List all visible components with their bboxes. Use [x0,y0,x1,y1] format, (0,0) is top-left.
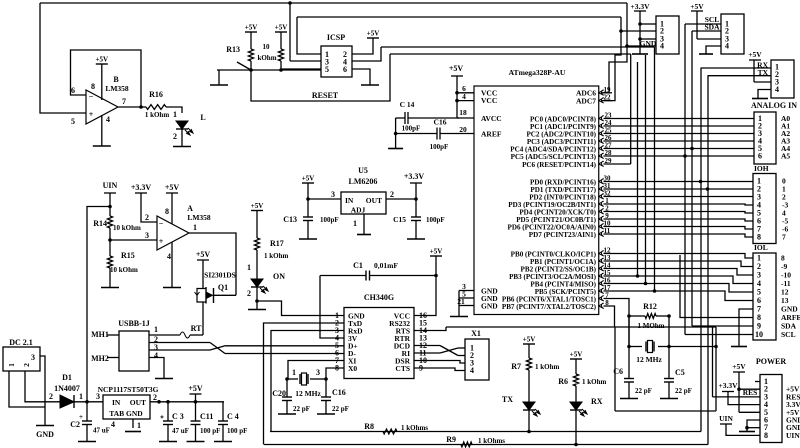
svg-text:C2: C2 [70,420,80,429]
svg-text:22 pF: 22 pF [293,405,310,413]
svg-text:21: 21 [457,297,465,306]
svg-text:+5V: +5V [690,2,704,11]
svg-text:RX: RX [591,397,603,406]
svg-text:1N4007: 1N4007 [54,384,80,393]
svg-text:IN: IN [112,398,121,407]
svg-text:C16: C16 [434,118,447,127]
svg-text:GND: GND [36,430,54,439]
svg-text:ADC7: ADC7 [576,96,596,105]
svg-text:TAB GND: TAB GND [109,409,143,418]
svg-text:B: B [113,75,119,84]
svg-text:+5V: +5V [302,175,315,183]
svg-text:ON: ON [273,272,285,281]
svg-text:R9: R9 [446,435,456,444]
svg-text:MH2: MH2 [91,354,109,363]
svg-text:1: 1 [79,392,83,401]
svg-text:C 14: C 14 [400,100,415,109]
svg-text:3: 3 [331,190,335,199]
svg-text:1: 1 [137,421,141,430]
svg-text:1: 1 [7,363,16,367]
svg-text:IOH: IOH [754,164,769,173]
svg-text:R12: R12 [643,302,657,311]
svg-text:+5V: +5V [188,384,203,393]
svg-text:4: 4 [167,252,171,261]
svg-text:1 kOhm: 1 kOhm [145,111,169,119]
svg-text:AVCC: AVCC [481,114,502,123]
svg-text:Q1: Q1 [218,283,228,292]
svg-text:C5: C5 [675,368,685,377]
svg-text:18: 18 [459,108,467,117]
svg-text:MH1: MH1 [91,330,109,339]
svg-text:1 MOhm: 1 MOhm [637,322,664,330]
svg-text:100pF: 100pF [402,125,421,133]
svg-text:C6: C6 [613,367,623,376]
svg-text:+5V: +5V [96,56,109,64]
svg-text:2: 2 [49,392,53,401]
svg-text:+5V: +5V [748,50,762,59]
svg-text:1 kOhm: 1 kOhm [535,363,559,371]
svg-text:C15: C15 [393,215,406,224]
svg-text:R7: R7 [511,362,521,371]
svg-text:C16: C16 [332,388,346,397]
svg-text:TX: TX [502,395,513,404]
svg-text:C 3: C 3 [172,412,184,421]
svg-text:+5V: +5V [449,64,464,73]
svg-text:L: L [200,113,205,122]
svg-text:3: 3 [145,231,149,240]
svg-text:CH340G: CH340G [364,293,394,302]
svg-text:C13: C13 [283,215,297,224]
svg-text:+5V: +5V [367,30,380,38]
svg-text:PB7 (PCINT7/XTAL2/TOSC2): PB7 (PCINT7/XTAL2/TOSC2) [502,303,597,311]
svg-text:100pF: 100pF [320,216,339,224]
svg-text:8: 8 [165,207,169,216]
svg-text:SI2301DS: SI2301DS [204,271,236,280]
svg-text:+5V: +5V [275,24,288,32]
svg-text:7: 7 [782,233,786,242]
svg-text:kOhm: kOhm [257,54,276,62]
svg-text:IOL: IOL [754,243,768,252]
svg-text:R14: R14 [93,219,107,228]
svg-text:10: 10 [263,43,271,51]
svg-text:47 uF: 47 uF [93,427,110,435]
svg-text:22 pF: 22 pF [635,387,652,395]
svg-text:R15: R15 [121,251,135,260]
svg-text:4: 4 [462,92,466,101]
svg-text:PC5 (ADC5/SCL/PCINT13): PC5 (ADC5/SCL/PCINT13) [511,153,597,161]
svg-text:4: 4 [106,115,110,124]
svg-text:6: 6 [343,65,347,74]
svg-text:POWER: POWER [756,357,786,366]
svg-text:1: 1 [353,219,357,228]
svg-text:LM358: LM358 [187,213,211,222]
svg-text:R8: R8 [364,422,374,431]
svg-text:20: 20 [459,125,467,134]
svg-text:+5V: +5V [245,24,258,32]
svg-text:6: 6 [71,86,75,95]
svg-text:1 kOhm: 1 kOhm [582,378,606,386]
svg-text:X1: X1 [471,329,481,338]
svg-text:+5V: +5V [251,202,264,210]
svg-text:100 pF: 100 pF [200,427,220,435]
svg-text:+: + [159,237,164,246]
svg-text:OUT: OUT [130,398,146,407]
svg-text:4: 4 [154,351,158,360]
svg-text:1 kOhms: 1 kOhms [401,424,428,432]
svg-text:10: 10 [755,330,763,339]
svg-text:4: 4 [725,42,729,51]
svg-text:+3.3V: +3.3V [131,183,152,192]
svg-text:R17: R17 [270,239,284,248]
svg-text:+3.3V: +3.3V [718,381,738,390]
svg-text:LM6206: LM6206 [349,177,378,186]
svg-text:+5V: +5V [430,248,443,256]
svg-text:UIN: UIN [103,181,118,190]
svg-text:PD7 (PCINT23/AIN1): PD7 (PCINT23/AIN1) [529,231,597,239]
svg-text:IN: IN [345,196,354,205]
svg-text:UIN: UIN [719,414,733,423]
svg-text:12 MHz: 12 MHz [295,389,321,398]
svg-text:+5V: +5V [732,362,746,371]
svg-text:1: 1 [154,325,158,334]
svg-text:1: 1 [193,223,197,232]
svg-text:−: − [89,92,94,101]
svg-text:22 pF: 22 pF [332,405,349,413]
svg-text:0,01mF: 0,01mF [374,261,398,270]
svg-text:+: + [89,110,94,119]
svg-text:2: 2 [247,289,251,298]
svg-text:1: 1 [173,110,177,119]
svg-text:RES: RES [743,388,758,397]
svg-text:GND: GND [640,39,657,48]
svg-text:RESET: RESET [312,91,339,100]
svg-text:ADJ: ADJ [351,206,366,215]
svg-text:GND: GND [481,301,498,310]
svg-text:VCC: VCC [481,96,497,105]
svg-text:AREF: AREF [481,129,502,138]
svg-text:5: 5 [71,117,75,126]
svg-text:47 uF: 47 uF [172,427,189,435]
svg-text:ANALOG IN: ANALOG IN [751,101,797,110]
svg-text:A5: A5 [781,152,790,161]
svg-text:8: 8 [764,431,768,440]
svg-text:+3.3V: +3.3V [404,172,425,181]
svg-text:OUT: OUT [366,196,382,205]
svg-text:5: 5 [325,65,329,74]
svg-text:ATmega328P-AU: ATmega328P-AU [509,68,566,77]
svg-text:−: − [159,219,164,228]
svg-text:A: A [187,204,193,213]
svg-text:4: 4 [111,420,115,429]
svg-text:X0: X0 [348,364,357,373]
svg-text:1 kOhms: 1 kOhms [478,437,505,445]
svg-text:NCP1117ST50T3G: NCP1117ST50T3G [98,385,159,394]
svg-text:+3.3V: +3.3V [630,2,650,11]
svg-text:8: 8 [91,82,95,91]
svg-text:2: 2 [153,393,157,402]
svg-text:3: 3 [316,368,320,377]
svg-text:4: 4 [660,42,664,51]
svg-text:ICSP: ICSP [327,33,345,42]
svg-text:C1: C1 [353,261,363,270]
svg-text:R16: R16 [149,90,163,99]
svg-text:1 kOhm: 1 kOhm [264,252,288,260]
svg-text:C20: C20 [272,389,286,398]
svg-text:1: 1 [247,263,251,272]
svg-text:4: 4 [470,366,474,375]
svg-text:LM358: LM358 [105,84,129,93]
svg-text:7: 7 [122,97,126,106]
svg-text:10 kOhm: 10 kOhm [113,224,141,232]
svg-text:2: 2 [22,363,31,367]
svg-text:USBB-1J: USBB-1J [118,319,150,328]
svg-text:6: 6 [758,152,762,161]
svg-text:C11: C11 [200,412,213,421]
svg-text:100 pF: 100 pF [227,427,247,435]
svg-text:+5V: +5V [165,183,180,192]
svg-text:UIN: UIN [786,431,800,440]
svg-text:2: 2 [390,190,394,199]
svg-text:+5V: +5V [570,351,583,359]
svg-text:22 pF: 22 pF [675,387,692,395]
svg-text:R13: R13 [226,45,240,54]
svg-text:2: 2 [145,213,149,222]
svg-text:R6: R6 [558,377,568,386]
svg-text:C 4: C 4 [227,412,239,421]
svg-text:+5V: +5V [523,336,536,344]
svg-text:8: 8 [757,233,761,242]
svg-text:100pF: 100pF [430,143,449,151]
svg-text:D1: D1 [62,373,72,382]
svg-text:+5V: +5V [196,250,211,259]
svg-text:RT: RT [191,324,202,333]
svg-text:+: + [160,413,164,421]
svg-text:PC6 (RESET/PCINT14): PC6 (RESET/PCINT14) [522,161,597,169]
svg-text:SCL: SCL [781,330,796,339]
svg-text:U5: U5 [358,166,368,175]
svg-text:DC 2.1: DC 2.1 [9,338,33,347]
svg-text:100pF: 100pF [426,216,445,224]
svg-text:12 MHz: 12 MHz [636,355,662,364]
svg-text:4: 4 [775,85,779,94]
svg-text:CTS: CTS [395,364,410,373]
svg-text:1: 1 [292,368,296,377]
svg-text:3: 3 [31,353,35,362]
svg-text:10 kOhm: 10 kOhm [110,266,138,274]
svg-text:2: 2 [173,132,177,141]
